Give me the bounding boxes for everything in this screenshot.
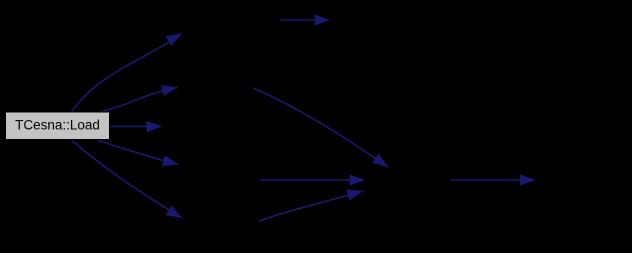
svg-text:TCesna::Load: TCesna::Load [15,117,100,132]
